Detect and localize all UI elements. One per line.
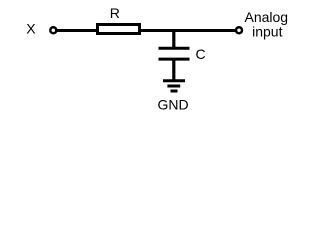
wire: X terminal to resistor bbox=[57, 29, 98, 32]
svg-text:R: R bbox=[110, 5, 120, 21]
resistor R bbox=[98, 25, 140, 34]
svg-text:C: C bbox=[196, 46, 206, 62]
wire: capacitor to ground bbox=[172, 60, 175, 81]
terminal Analog input (open circle) bbox=[236, 27, 242, 33]
terminal X (open circle) bbox=[50, 27, 56, 33]
wire: resistor to Analog input terminal bbox=[140, 29, 236, 32]
svg-text:Analog: Analog bbox=[245, 9, 289, 25]
svg-text:GND: GND bbox=[157, 97, 188, 113]
wire: junction down to capacitor bbox=[172, 29, 175, 48]
svg-text:input: input bbox=[252, 24, 282, 40]
ground symbol bar 3 bbox=[171, 90, 178, 93]
ground symbol bar 2 bbox=[167, 85, 180, 88]
capacitor C (top plate) bbox=[159, 47, 190, 50]
svg-text:X: X bbox=[26, 21, 36, 37]
capacitor C (bottom plate) bbox=[159, 58, 190, 61]
ground symbol bar 1 bbox=[163, 79, 185, 82]
